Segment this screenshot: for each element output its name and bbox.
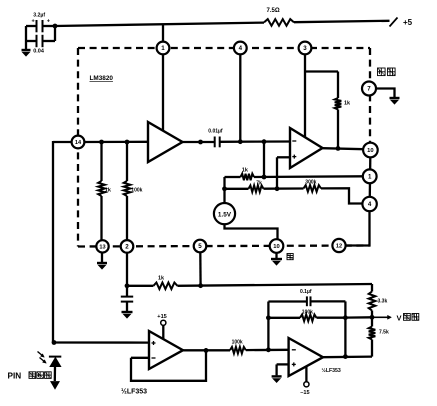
wire cap to amp2 — [220, 140, 290, 143]
svg-text:7.5k: 7.5k — [379, 330, 389, 336]
svg-text:14: 14 — [75, 140, 82, 146]
node row2 junction — [275, 186, 280, 191]
op-amp U1 — [148, 122, 183, 162]
pin 4 right — [362, 197, 376, 211]
wire amp3 feedback — [131, 351, 206, 381]
pin 7 — [362, 82, 376, 96]
resistor R1 1k vertical — [98, 142, 112, 241]
IC dashed box right edge upper — [369, 48, 371, 143]
wire pin5 down — [199, 252, 202, 285]
photodiode D1 — [49, 355, 61, 381]
label di ground — [287, 254, 293, 260]
ground at pin13 — [97, 263, 107, 269]
battery B1 1.5V — [214, 203, 235, 224]
capacitor C4 on pin2 — [121, 286, 133, 311]
svg-text:4: 4 — [368, 201, 372, 208]
wire pin3 lead down — [304, 55, 306, 138]
wire pin10 ground lead — [275, 253, 277, 258]
wire U4 output — [323, 355, 372, 358]
node fb bottom junction — [266, 347, 271, 352]
wire bias vertical — [263, 142, 265, 177]
label -15 — [300, 390, 309, 396]
svg-text:2: 2 — [125, 244, 129, 251]
wire lower rail left — [127, 285, 153, 287]
pin 10 bottom — [270, 239, 284, 253]
wire pin13 ground lead — [101, 253, 103, 262]
svg-text:7k: 7k — [256, 181, 262, 187]
svg-text:100k: 100k — [232, 339, 243, 345]
wire row2 left — [225, 188, 249, 190]
wire pin12 to pin4 — [345, 211, 369, 245]
ground at U4 plus — [272, 376, 282, 382]
wire pins 10-1-4 bus — [368, 157, 371, 211]
label waike — [378, 68, 396, 76]
svg-text:4: 4 — [239, 45, 243, 52]
IC dashed box bottom edge — [78, 246, 370, 247]
pin 4 top — [234, 42, 247, 55]
wire row1 to pin1 — [254, 175, 363, 178]
label PIN diode — [8, 372, 52, 381]
ground under caps — [22, 50, 31, 56]
label U4 half LF353 — [322, 367, 341, 374]
label R5 300k — [305, 179, 316, 185]
wire R11 down — [371, 340, 373, 357]
wire row2 mid — [264, 187, 304, 189]
vout arrow — [372, 315, 392, 319]
svg-text:12: 12 — [336, 244, 342, 250]
svg-text:+: + — [47, 19, 50, 25]
svg-text:1.5V: 1.5V — [218, 211, 232, 218]
wire row1 left corner — [225, 176, 241, 178]
svg-text:7: 7 — [367, 86, 371, 93]
pin 14 left — [72, 136, 85, 149]
node pin2 rail junction — [125, 283, 130, 288]
terminal -15 circle — [304, 382, 309, 387]
capacitor C5 0.1uf — [268, 289, 345, 306]
wire amp3 output — [183, 349, 230, 351]
svg-text:5: 5 — [198, 243, 202, 250]
wire amp1 output — [183, 141, 215, 143]
svg-text:10: 10 — [367, 148, 373, 154]
wire photodiode to amp3 — [54, 341, 149, 343]
op-amp U3 — [149, 331, 183, 369]
svg-text:3.2µf: 3.2µf — [33, 12, 45, 18]
wire amp3 minus stub — [131, 357, 149, 359]
label LM3820 — [90, 75, 114, 82]
resistor R8 100k — [230, 347, 246, 354]
U2 minus mark — [292, 140, 296, 142]
svg-text:+5: +5 — [403, 18, 413, 27]
resistor R7 1k — [153, 283, 177, 290]
resistor R6 1k vertical — [335, 98, 342, 148]
node R2 top — [125, 140, 130, 145]
node U4 out junction — [343, 354, 348, 359]
wire long left vertical — [52, 141, 54, 343]
wire minus input riser — [277, 157, 290, 188]
node pin5 rail junction — [198, 283, 203, 288]
label R10 3.3k — [378, 299, 388, 305]
resistor R5 300k — [304, 185, 322, 192]
label R7 1k — [158, 276, 165, 282]
wire R10 to vout — [371, 311, 373, 327]
node vout — [370, 315, 375, 320]
resistor R9 100k — [268, 315, 316, 322]
wire battery to pin10 — [225, 224, 278, 239]
svg-text:3.3k: 3.3k — [378, 299, 388, 305]
svg-text:1k: 1k — [344, 101, 351, 107]
svg-text:+15: +15 — [157, 314, 167, 320]
node amp1 out junction — [198, 140, 203, 145]
svg-text:1: 1 — [161, 45, 165, 52]
wire cap right leg — [54, 26, 56, 41]
label R4 7k — [256, 181, 262, 187]
wire amp2 output — [323, 148, 364, 149]
svg-text:100k: 100k — [302, 309, 313, 315]
resistor R3 1k — [241, 174, 255, 181]
U3 plus mark — [152, 341, 156, 345]
svg-text:V: V — [397, 314, 402, 323]
wire pin2 down — [126, 253, 128, 286]
U2 plus mark — [292, 155, 296, 159]
wire fb to vout node — [345, 316, 372, 319]
svg-text:3: 3 — [303, 45, 307, 52]
label 7.5ohm — [267, 8, 280, 14]
terminal +5 — [390, 18, 413, 28]
resistor R4 7k — [249, 185, 264, 192]
wire top rail — [55, 21, 390, 26]
node fb right junction — [343, 315, 348, 320]
capacitor C3 0.01uf — [208, 129, 223, 148]
wire row2 to pin4 — [321, 188, 362, 203]
svg-text:1k: 1k — [105, 187, 112, 193]
node pin4 junction — [238, 139, 243, 144]
node row1 junction — [262, 175, 267, 180]
svg-text:½LF353: ½LF353 — [322, 367, 341, 374]
node rail-caps junction — [53, 24, 58, 29]
wire pin1 lead to rail — [162, 24, 164, 42]
U4 plus mark — [292, 362, 296, 366]
label R9 100k — [302, 309, 313, 315]
svg-text:300k: 300k — [305, 179, 316, 185]
pin 13 — [96, 240, 108, 252]
resistor R10 3.3k — [369, 292, 376, 311]
label V out — [397, 314, 419, 323]
pin 12 bottom — [332, 239, 345, 252]
U4 minus mark — [292, 349, 296, 351]
capacitor C2 0.04 — [26, 35, 55, 55]
wire U4 minus15 lead — [305, 367, 307, 382]
pin 2 bottom — [121, 240, 134, 253]
wire pin14 to amp input — [85, 141, 149, 143]
U3 minus mark — [152, 357, 156, 359]
pin 1 top — [157, 42, 170, 55]
svg-text:100k: 100k — [131, 187, 142, 193]
wire pin14 left stub — [53, 141, 72, 143]
IC dashed box top edge — [78, 47, 370, 49]
wire battery stem — [223, 177, 225, 203]
node R1 top — [99, 140, 104, 145]
wire R8 to amp4 — [246, 349, 289, 352]
wire R9 right — [317, 317, 346, 319]
negative supply arrow under D1 — [51, 382, 60, 390]
wire U4 plus to ground — [277, 364, 289, 375]
svg-text:+: + — [32, 19, 35, 25]
node bias junction — [262, 139, 267, 144]
svg-text:10: 10 — [273, 244, 279, 250]
resistor R2 100k vertical — [124, 142, 143, 240]
svg-text:0.04: 0.04 — [33, 48, 45, 54]
wire lower rail right — [177, 284, 372, 286]
resistor 7.5ohm in top rail — [264, 19, 294, 26]
pin 10 right — [363, 143, 378, 158]
wire pin4 lead down — [239, 55, 241, 142]
node amp2 out junction — [336, 146, 341, 151]
wire fb right vertical — [344, 301, 346, 356]
label R6 1k — [344, 101, 351, 107]
svg-text:7.5Ω: 7.5Ω — [267, 8, 280, 14]
svg-text:13: 13 — [99, 245, 105, 251]
label R8 100k — [232, 339, 243, 345]
node photodiode junction — [52, 340, 57, 345]
op-amp U2 — [290, 128, 323, 168]
light arrows — [38, 352, 47, 364]
IC dashed box left edge — [77, 48, 79, 247]
label R3 1k — [242, 167, 249, 173]
ground at pin7 — [390, 98, 400, 104]
node amp3 out junction — [204, 348, 209, 353]
op-amp U4 — [289, 338, 323, 376]
svg-text:–15: –15 — [300, 390, 309, 396]
svg-text:0.1µf: 0.1µf — [300, 289, 312, 295]
svg-text:PIN: PIN — [8, 372, 22, 381]
svg-text:½LF353: ½LF353 — [121, 388, 147, 396]
wire rail corner down — [371, 284, 373, 292]
ground at pin10 — [271, 259, 282, 265]
wire pin7 case ground — [376, 89, 395, 98]
pin 3 top — [299, 42, 312, 55]
svg-text:0.01µf: 0.01µf — [208, 129, 223, 135]
capacitor C1 3.2uf — [26, 12, 55, 32]
node battery row2 junction — [222, 186, 227, 191]
label +15 — [157, 314, 167, 320]
ground under C4 — [122, 312, 133, 318]
svg-text:1k: 1k — [242, 167, 249, 173]
svg-text:1k: 1k — [158, 276, 165, 282]
wire pin1 lead into amp — [162, 55, 164, 131]
wire cap left leg — [25, 26, 27, 49]
wire pin3 branch — [305, 72, 338, 99]
terminal +15 circle — [161, 320, 166, 325]
label U3 half LF353 — [121, 388, 147, 396]
svg-text:1: 1 — [368, 173, 372, 180]
wire fb left vertical — [267, 302, 269, 350]
pin 1 right — [363, 169, 377, 183]
resistor R11 7.5k — [369, 327, 376, 340]
pin 5 bottom — [194, 240, 207, 253]
svg-text:LM3820: LM3820 — [90, 75, 114, 82]
wire +15 to amp3 — [162, 325, 164, 340]
node fb mid junction — [266, 315, 271, 320]
label R11 7.5k — [379, 330, 389, 336]
